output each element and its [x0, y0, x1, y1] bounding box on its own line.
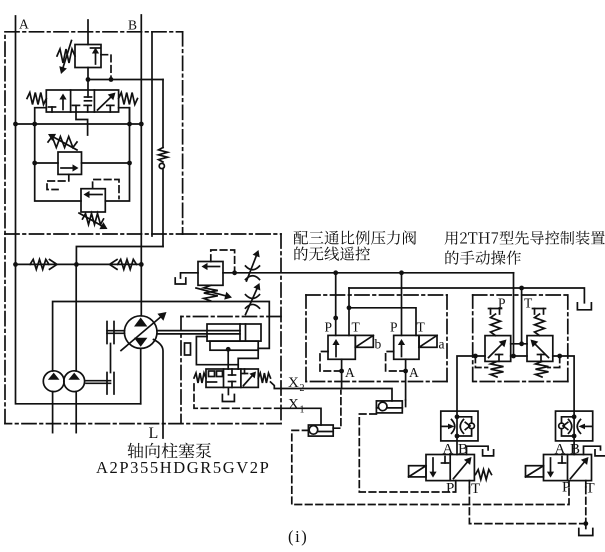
shaft coupling K2 — [107, 373, 114, 395]
V2 right cell arrow — [98, 93, 116, 111]
P1 variable arrow — [121, 312, 167, 351]
port A label — [19, 17, 29, 32]
control body — [196, 337, 258, 370]
V2 left cell port — [49, 107, 56, 112]
V3 proportional arrow — [48, 134, 77, 150]
V10 bottom spring — [491, 361, 504, 377]
V9 arrow — [398, 339, 405, 357]
svg-text:b: b — [375, 337, 382, 352]
V1 proportional arrow — [59, 41, 71, 75]
V6 arrow — [202, 263, 220, 270]
tank node — [579, 521, 593, 535]
R1 right dashed — [333, 391, 341, 429]
svg-text:A: A — [443, 442, 454, 458]
V10 arrow — [489, 340, 507, 362]
X1 wire — [281, 408, 321, 425]
main variable pump P1 — [124, 316, 157, 349]
V8 arrow — [332, 339, 339, 357]
V2 left cell arrow — [59, 94, 66, 110]
aux pump shaft — [86, 381, 111, 384]
V4 spring — [83, 214, 104, 225]
V6 spring arrow — [196, 288, 232, 300]
V10 top spring — [491, 314, 501, 336]
P1 shaft — [107, 331, 125, 334]
variable orifice O2 — [246, 283, 261, 315]
svg-text:X: X — [288, 375, 299, 391]
wire right supply line — [151, 32, 153, 236]
2TH7 T wire — [519, 286, 524, 347]
bus y264 nodes — [13, 262, 144, 267]
V2 left drain elbow — [35, 108, 47, 124]
feedback node — [226, 347, 231, 369]
V12 solenoid — [409, 466, 426, 477]
boost pump supply wire — [53, 302, 270, 372]
V12 spring — [476, 470, 492, 480]
X1 pilot dashed — [292, 430, 569, 504]
V10 lever — [489, 309, 502, 315]
V2 center port bend — [76, 112, 88, 135]
wire V3 left — [35, 162, 58, 164]
aux pump P3 — [64, 371, 85, 392]
body left stub — [185, 343, 191, 355]
2TH7 pilot enclosure (dash-dot) — [473, 295, 568, 382]
P3 suction wire — [75, 392, 77, 433]
piston rod — [157, 331, 240, 334]
V7 right spring — [258, 373, 270, 383]
V4 arrow — [84, 191, 103, 198]
V13 B wire — [584, 446, 605, 456]
V8 T wire — [347, 288, 352, 335]
V7 pilot box dashed — [194, 384, 281, 408]
V8 P wire — [333, 273, 338, 336]
V8 A down wire — [341, 371, 343, 389]
V8 feedback dashed — [320, 352, 339, 372]
svg-text:B: B — [570, 442, 580, 458]
V13 P stub — [562, 480, 570, 496]
pilot valve V8 body — [328, 335, 355, 359]
V10 out — [473, 354, 488, 368]
check valve C2 — [110, 259, 137, 269]
shaft vertical — [110, 344, 112, 373]
pump model — [96, 458, 270, 477]
bus y124 nodes — [13, 122, 144, 127]
throttle check T1 — [441, 411, 478, 454]
wire left branch — [35, 124, 81, 201]
wire right branch — [105, 108, 129, 201]
V13 right cell arrow — [571, 457, 589, 479]
V11 bottom spring — [536, 361, 549, 377]
V7 right cell arrow — [244, 372, 257, 386]
V11 out — [548, 354, 562, 368]
node y273 — [232, 270, 404, 275]
takeup R2 — [376, 401, 402, 413]
manual valve V11 body — [527, 336, 553, 362]
V9 out wire — [403, 359, 419, 380]
L label — [149, 425, 159, 442]
P2 suction wire — [52, 392, 54, 433]
V13 solenoid — [526, 466, 544, 477]
V13 T dashed — [585, 487, 587, 524]
svg-text:T: T — [586, 481, 595, 497]
caption annotation 1b — [294, 247, 370, 261]
pump case drain L — [154, 340, 164, 439]
directional valve V2 body — [46, 90, 118, 112]
V8 port labels — [325, 320, 361, 335]
V11 top spring — [535, 314, 545, 336]
V1 outlet — [87, 68, 89, 80]
V13 T stub — [586, 481, 595, 497]
wire port B line — [140, 15, 142, 316]
svg-text:a: a — [439, 337, 445, 352]
V3 pilot dashed — [47, 174, 69, 189]
reducing valve V4 body — [81, 189, 105, 212]
V7 left spring — [194, 373, 206, 383]
V7 drain — [222, 387, 234, 401]
manual valve V10 body — [485, 336, 511, 362]
proportional relief valve V1 body — [75, 45, 101, 68]
pilot wire to bus — [76, 247, 163, 265]
V2 right drain elbow — [119, 108, 130, 124]
svg-text:A: A — [19, 17, 29, 32]
V9 P wire — [401, 273, 403, 336]
V8 out wire — [339, 359, 355, 380]
2TH7 gap wires — [511, 344, 527, 356]
svg-text:P: P — [390, 320, 398, 335]
shaft coupling K1 — [107, 322, 114, 344]
directional valve V13 body — [544, 455, 592, 481]
V12 left cell — [429, 457, 448, 478]
V2 left spring — [27, 93, 46, 105]
reducing valve V3 body — [58, 152, 82, 174]
V12 P stub — [446, 481, 456, 497]
node branch — [32, 161, 132, 166]
svg-text:L: L — [149, 425, 159, 442]
V12 T dashed — [469, 487, 585, 524]
pump unit enclosure (dash-dot) — [5, 32, 281, 424]
aux pump P2 — [43, 371, 64, 392]
V4 pilot dashed — [93, 180, 119, 199]
V3 arrow — [61, 164, 79, 171]
pump caption — [128, 443, 212, 459]
V11 arrow — [531, 340, 549, 362]
V1 internal arrow — [91, 48, 101, 65]
V1 supply stub — [87, 20, 89, 45]
X2 label — [288, 375, 305, 394]
svg-text:A: A — [345, 365, 355, 380]
pump B port wire — [140, 348, 142, 403]
wireless pilot enclosure (dash-dot) — [306, 295, 447, 382]
V9 label a — [439, 337, 445, 352]
throttle check T2 — [556, 411, 593, 454]
svg-text:(i): (i) — [288, 527, 308, 546]
V9 feedback dashed — [386, 352, 403, 372]
caption annotation 1 — [294, 230, 417, 244]
V7 left cell ports — [209, 371, 223, 377]
variable orifice O1 — [246, 250, 260, 281]
svg-text:A: A — [409, 365, 419, 380]
V2 right spring — [119, 93, 138, 105]
wire V3 right — [82, 162, 130, 164]
svg-text:B: B — [128, 18, 137, 33]
V6 pilot dashed — [211, 250, 235, 272]
svg-text:A2P355HDGR5GV2P: A2P355HDGR5GV2P — [96, 458, 270, 477]
X1 label — [288, 397, 305, 416]
svg-text:P: P — [446, 481, 454, 497]
V1 pilot dashed — [101, 55, 111, 78]
V13 left cell — [547, 457, 566, 478]
svg-text:P: P — [325, 320, 333, 335]
V12 right cell arrow — [454, 457, 472, 479]
pilot supply wire y273 — [223, 272, 514, 274]
V9 solenoid — [419, 335, 437, 347]
svg-text:T: T — [471, 481, 480, 497]
V13 A label — [555, 442, 581, 458]
V9 port labels — [390, 320, 426, 335]
cylinder piston — [240, 324, 246, 341]
svg-text:1: 1 — [300, 405, 305, 416]
svg-text:A: A — [555, 442, 566, 458]
stroking cylinder barrel — [207, 324, 261, 341]
takeup R1 — [308, 425, 333, 436]
servo control enclosure (dash-dot) — [181, 317, 281, 424]
2TH7 P wire — [511, 273, 516, 359]
V8 label b — [375, 337, 382, 352]
check valve C1 — [30, 259, 57, 269]
bus line y124 — [16, 123, 142, 125]
2TH7 port labels — [498, 296, 533, 311]
X2 wire — [271, 382, 393, 401]
figure label (i) — [288, 527, 308, 546]
V12 T stub — [469, 481, 480, 497]
V2 mid cell ports — [73, 80, 114, 112]
directional valve V12 body — [426, 455, 474, 481]
V12 B wire — [467, 446, 494, 456]
V7 mid cell — [208, 369, 248, 387]
V9 T wire — [349, 308, 416, 336]
V1 spring — [57, 49, 75, 63]
X2 pilot dashed — [359, 414, 455, 492]
V11 lever — [533, 309, 546, 315]
port B label — [128, 18, 137, 33]
V6 spring — [204, 285, 218, 301]
caption annotation 2 — [445, 231, 605, 245]
V12 A label — [443, 442, 469, 458]
pilot T return wire — [349, 288, 591, 310]
pilot spring check valve V5 — [159, 80, 168, 247]
svg-text:X: X — [288, 397, 299, 413]
V8 solenoid — [355, 335, 373, 347]
V6 drain — [175, 273, 198, 284]
servo valve V7 body — [206, 369, 258, 387]
V4 proportional arrow — [79, 213, 108, 229]
pilot wire y79 — [88, 79, 163, 81]
caption annotation 2b — [445, 251, 521, 265]
V9 A down wire — [402, 371, 405, 407]
node V1 out — [86, 77, 114, 82]
svg-text:T: T — [352, 320, 361, 335]
V3 spring — [48, 137, 77, 148]
V11 out wire — [553, 356, 574, 411]
bus line y264 — [16, 263, 142, 265]
V10 out wire — [457, 356, 485, 411]
svg-text:P: P — [562, 480, 570, 496]
pressure cutoff valve V6 body — [198, 262, 223, 286]
wire port A line — [16, 16, 141, 404]
pilot valve V9 body — [394, 335, 419, 359]
svg-text:T: T — [417, 320, 426, 335]
charge pump wire — [75, 264, 77, 371]
svg-text:2: 2 — [300, 383, 305, 394]
